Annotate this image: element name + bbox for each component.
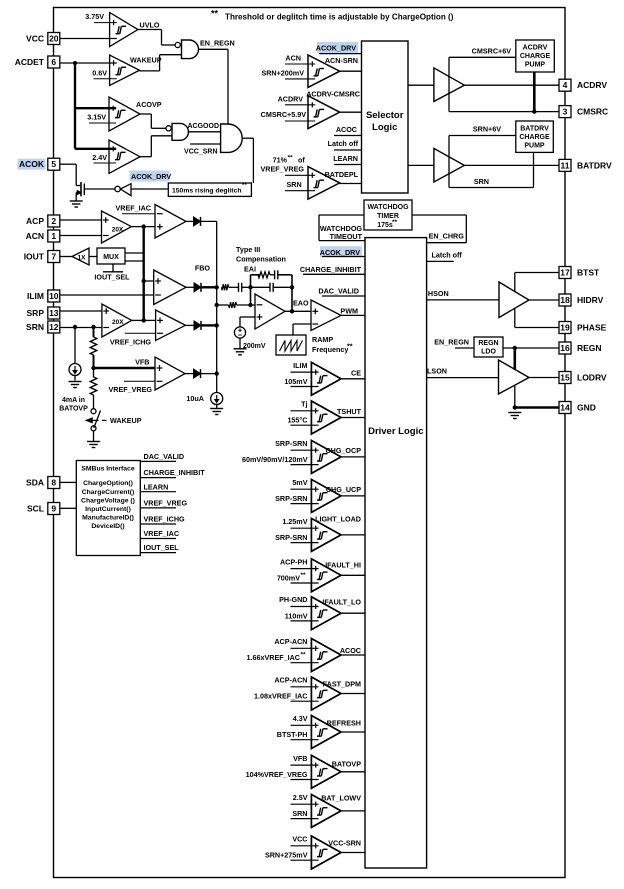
svg-text:SRN: SRN: [292, 809, 307, 818]
svg-text:PUMP: PUMP: [525, 62, 546, 69]
svg-text:6: 6: [51, 57, 56, 67]
svg-text:CHG_UCP: CHG_UCP: [326, 485, 361, 494]
svg-text:3.75V: 3.75V: [85, 12, 104, 21]
svg-text:LEARN: LEARN: [144, 482, 169, 491]
svg-text:VREF_IAC: VREF_IAC: [115, 204, 151, 213]
svg-text:20: 20: [49, 34, 59, 44]
svg-text:CHG_OCP: CHG_OCP: [325, 446, 361, 455]
svg-text:SRN+200mV: SRN+200mV: [261, 68, 304, 77]
svg-text:CE: CE: [351, 369, 361, 378]
svg-text:14: 14: [560, 403, 570, 413]
svg-text:PH-GND: PH-GND: [279, 595, 307, 604]
svg-text:Latch off: Latch off: [431, 251, 462, 260]
svg-text:PWM: PWM: [340, 306, 358, 315]
svg-text:ACN: ACN: [26, 231, 44, 241]
svg-text:ChargeVoltage (): ChargeVoltage (): [81, 498, 135, 505]
svg-text:EN_CHRG: EN_CHRG: [429, 232, 465, 241]
svg-text:BATOVP: BATOVP: [332, 760, 361, 769]
svg-text:IFAULT_HI: IFAULT_HI: [325, 561, 361, 570]
svg-text:BTST-PH: BTST-PH: [277, 730, 308, 739]
svg-text:ACDRV: ACDRV: [577, 80, 607, 90]
svg-text:ACDRV: ACDRV: [278, 94, 304, 103]
svg-text:VCC: VCC: [26, 34, 44, 44]
svg-text:WAKEUP: WAKEUP: [130, 56, 162, 65]
svg-text:**: **: [211, 9, 219, 19]
svg-text:19: 19: [560, 323, 570, 333]
svg-text:SCL: SCL: [27, 504, 44, 514]
svg-text:SRP-SRN: SRP-SRN: [275, 494, 307, 503]
svg-text:REGN: REGN: [577, 343, 602, 353]
svg-text:Compensation: Compensation: [236, 255, 286, 264]
svg-text:ILIM: ILIM: [27, 291, 44, 301]
svg-text:CMSRC+5.9V: CMSRC+5.9V: [261, 110, 307, 119]
svg-text:ILIM: ILIM: [293, 361, 307, 370]
svg-text:FAST_DPM: FAST_DPM: [323, 680, 361, 689]
svg-text:9: 9: [51, 504, 56, 514]
svg-text:**: **: [301, 572, 307, 579]
svg-text:WATCHDOG: WATCHDOG: [367, 204, 409, 211]
svg-text:ACOC: ACOC: [336, 125, 357, 134]
svg-text:13: 13: [49, 308, 59, 318]
svg-text:WAKEUP: WAKEUP: [110, 416, 142, 425]
svg-text:ACN: ACN: [285, 53, 301, 62]
svg-text:110mV: 110mV: [285, 611, 308, 620]
svg-text:ACOVP: ACOVP: [136, 100, 162, 109]
svg-text:Selector: Selector: [366, 110, 404, 121]
svg-text:EAO: EAO: [293, 298, 309, 307]
svg-text:TIMEOUT: TIMEOUT: [330, 232, 363, 241]
svg-text:1: 1: [51, 231, 56, 241]
svg-text:8: 8: [51, 478, 56, 488]
svg-text:CHARGE: CHARGE: [519, 134, 550, 141]
svg-text:VREF_ICHG: VREF_ICHG: [110, 338, 152, 347]
svg-text:**: **: [392, 219, 398, 226]
svg-text:EAI: EAI: [244, 265, 256, 274]
svg-text:71%: 71%: [273, 155, 288, 164]
svg-text:RAMP: RAMP: [312, 335, 333, 344]
svg-text:CMSRC: CMSRC: [577, 107, 608, 117]
svg-text:HSON: HSON: [428, 289, 449, 298]
svg-text:ACP-PH: ACP-PH: [280, 557, 308, 566]
svg-text:EN_REGN: EN_REGN: [434, 338, 469, 347]
svg-text:ManufactureID(): ManufactureID(): [82, 514, 134, 521]
svg-text:Driver Logic: Driver Logic: [368, 426, 423, 437]
svg-text:0.6V: 0.6V: [92, 69, 107, 78]
svg-text:2.5V: 2.5V: [293, 793, 308, 802]
svg-text:SRN+6V: SRN+6V: [473, 125, 501, 134]
svg-text:700mV: 700mV: [277, 574, 300, 583]
svg-text:2.4V: 2.4V: [92, 153, 107, 162]
svg-text:1X: 1X: [78, 255, 87, 262]
svg-text:LIGHT_LOAD: LIGHT_LOAD: [315, 515, 361, 524]
svg-text:VREF_ICHG: VREF_ICHG: [144, 515, 186, 524]
svg-text:17: 17: [560, 268, 570, 278]
svg-text:BATDEPL: BATDEPL: [325, 170, 359, 179]
svg-text:2: 2: [51, 216, 56, 226]
svg-text:155°C: 155°C: [287, 416, 307, 425]
svg-text:105mV: 105mV: [284, 377, 307, 386]
svg-text:1.25mV: 1.25mV: [282, 517, 307, 526]
svg-text:ACP-ACN: ACP-ACN: [274, 637, 307, 646]
svg-text:15: 15: [560, 373, 570, 383]
svg-text:SRN+275mV: SRN+275mV: [265, 851, 308, 860]
svg-text:ACDRV: ACDRV: [523, 45, 548, 52]
svg-text:ACOK: ACOK: [19, 159, 45, 169]
svg-text:175s: 175s: [377, 222, 393, 229]
svg-text:16: 16: [560, 343, 570, 353]
svg-text:3: 3: [563, 107, 568, 117]
svg-text:**: **: [288, 155, 294, 162]
svg-text:3.15V: 3.15V: [87, 113, 106, 122]
svg-text:SRN: SRN: [474, 177, 489, 186]
svg-text:BTST: BTST: [577, 268, 600, 278]
svg-text:BATOVP: BATOVP: [59, 406, 88, 413]
svg-text:SRP-SRN: SRP-SRN: [275, 533, 307, 542]
svg-text:LODRV: LODRV: [577, 373, 607, 383]
svg-text:**: **: [301, 652, 307, 659]
svg-text:SRP: SRP: [27, 308, 45, 318]
svg-text:GND: GND: [577, 403, 596, 413]
svg-text:Logic: Logic: [372, 122, 397, 133]
svg-text:7: 7: [51, 252, 56, 262]
svg-text:5: 5: [51, 159, 56, 169]
svg-text:ChargeOption(): ChargeOption(): [83, 480, 133, 487]
svg-text:ACOC: ACOC: [340, 646, 361, 655]
svg-text:10uA: 10uA: [186, 394, 204, 403]
svg-text:104%VREF_VREG: 104%VREF_VREG: [246, 770, 308, 779]
svg-text:ACGOOD: ACGOOD: [188, 123, 220, 130]
svg-text:LSON: LSON: [427, 367, 447, 376]
svg-text:PUMP: PUMP: [524, 143, 545, 150]
svg-text:FBO: FBO: [195, 264, 211, 273]
svg-text:ACOK_DRV: ACOK_DRV: [316, 43, 356, 52]
svg-text:LDO: LDO: [481, 349, 496, 356]
svg-text:CHARGE_INHIBIT: CHARGE_INHIBIT: [144, 468, 206, 477]
svg-text:TSHUT: TSHUT: [337, 407, 362, 416]
svg-text:VFB: VFB: [293, 754, 307, 763]
svg-text:1.66xVREF_IAC: 1.66xVREF_IAC: [246, 653, 300, 662]
svg-text:VFB: VFB: [135, 358, 149, 367]
svg-text:ChargeCurrent(): ChargeCurrent(): [82, 489, 135, 496]
svg-text:CHARGE: CHARGE: [520, 53, 551, 60]
svg-text:IOUT_SEL: IOUT_SEL: [94, 273, 130, 282]
svg-text:VREF_VREG: VREF_VREG: [144, 499, 188, 508]
svg-text:VCC-SRN: VCC-SRN: [328, 839, 361, 848]
svg-text:Tj: Tj: [301, 400, 307, 409]
svg-text:REGN: REGN: [478, 340, 498, 347]
svg-text:DeviceID(): DeviceID(): [91, 523, 124, 530]
svg-text:Threshold or deglitch time is: Threshold or deglitch time is adjustable…: [225, 12, 454, 21]
svg-text:DAC_VALID: DAC_VALID: [144, 452, 185, 461]
svg-text:BATDRV: BATDRV: [520, 126, 549, 133]
svg-text:SDA: SDA: [26, 478, 44, 488]
svg-text:ACOK_DRV: ACOK_DRV: [131, 172, 171, 181]
svg-text:11: 11: [561, 160, 570, 170]
svg-text:5mV: 5mV: [292, 478, 307, 487]
svg-text:SRP-SRN: SRP-SRN: [275, 439, 307, 448]
svg-text:10: 10: [49, 291, 59, 301]
svg-text:20X: 20X: [112, 227, 124, 234]
svg-text:BAT_LOWV: BAT_LOWV: [321, 794, 361, 803]
svg-text:IOUT: IOUT: [24, 252, 45, 262]
svg-text:150ms rising deglitch: 150ms rising deglitch: [172, 187, 242, 194]
svg-text:20X: 20X: [112, 319, 124, 326]
svg-text:of: of: [298, 155, 305, 164]
svg-text:200mV: 200mV: [243, 343, 266, 350]
svg-text:IFAULT_LO: IFAULT_LO: [322, 598, 361, 607]
svg-text:4.3V: 4.3V: [293, 714, 308, 723]
svg-text:1.08xVREF_IAC: 1.08xVREF_IAC: [254, 692, 308, 701]
svg-text:CMSRC+6V: CMSRC+6V: [472, 46, 512, 55]
svg-text:PHASE: PHASE: [577, 323, 607, 333]
svg-text:VCC: VCC: [292, 835, 307, 844]
svg-text:ACOK_DRV: ACOK_DRV: [320, 248, 360, 257]
svg-text:18: 18: [560, 295, 570, 305]
svg-text:12: 12: [49, 322, 59, 332]
svg-text:BATDRV: BATDRV: [577, 160, 612, 170]
svg-text:CHARGE_INHIBIT: CHARGE_INHIBIT: [300, 265, 362, 274]
svg-text:VCC_SRN: VCC_SRN: [184, 149, 217, 156]
svg-text:UVLO: UVLO: [140, 21, 160, 30]
svg-text:SMBus Interface: SMBus Interface: [81, 466, 134, 473]
svg-text:LEARN: LEARN: [333, 154, 358, 163]
svg-text:ACP-ACN: ACP-ACN: [274, 676, 307, 685]
svg-text:ACP: ACP: [26, 216, 44, 226]
svg-text:HIDRV: HIDRV: [577, 295, 604, 305]
svg-text:ACN-SRN: ACN-SRN: [325, 56, 358, 65]
svg-text:4mA in: 4mA in: [62, 397, 85, 404]
svg-text:REFRESH: REFRESH: [327, 719, 361, 728]
svg-text:EN_REGN: EN_REGN: [200, 39, 235, 48]
svg-text:SRN: SRN: [287, 180, 302, 189]
svg-text:**: **: [242, 183, 247, 189]
svg-text:IOUT_SEL: IOUT_SEL: [144, 543, 180, 552]
svg-text:Latch off: Latch off: [328, 139, 359, 148]
svg-text:60mV/90mV/120mV: 60mV/90mV/120mV: [242, 455, 308, 464]
svg-text:ACDET: ACDET: [15, 57, 45, 67]
svg-text:VREF_VREG: VREF_VREG: [108, 385, 152, 394]
svg-text:Type III: Type III: [236, 245, 260, 254]
svg-text:DAC_VALID: DAC_VALID: [318, 287, 359, 296]
svg-text:SRN: SRN: [26, 322, 44, 332]
svg-text:ACDRV-CMSRC: ACDRV-CMSRC: [306, 89, 360, 98]
svg-text:MUX: MUX: [103, 254, 119, 261]
svg-text:Frequency: Frequency: [312, 345, 348, 354]
svg-text:InputCurrent(): InputCurrent(): [85, 506, 131, 513]
svg-text:**: **: [347, 342, 353, 351]
svg-text:VREF_IAC: VREF_IAC: [144, 529, 180, 538]
svg-text:4: 4: [563, 80, 568, 90]
svg-text:VREF_VREG: VREF_VREG: [260, 165, 304, 174]
